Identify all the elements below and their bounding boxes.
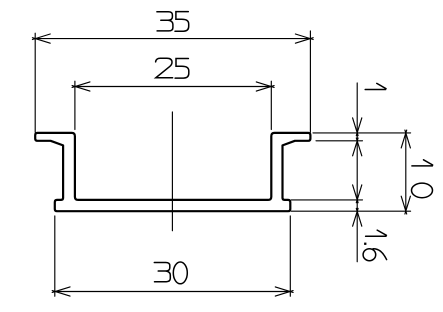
dim 30 arrow left <box>52 287 70 296</box>
extension line lip top (right) <box>313 132 411 134</box>
dim 25 arrow right <box>256 82 274 91</box>
text 30 digit 3 <box>154 263 170 282</box>
text 10 digit 0 (rotated) <box>412 183 433 198</box>
text 10 digit 1 (rotated) <box>412 160 433 166</box>
dim 35 arrow left <box>32 34 50 43</box>
dim 1 arrow up <box>353 138 362 156</box>
dim 30 extension line left <box>54 216 56 296</box>
vertical centerline <box>171 112 173 231</box>
extension line plate top (right) <box>291 199 362 201</box>
extension line lip bottom (right) <box>316 140 363 142</box>
dim 35 extension line left <box>34 33 36 132</box>
extension line plate bottom (right) <box>291 210 410 212</box>
dim 35 extension line right <box>309 31 311 132</box>
text 1.6 digit 6 (rotated) <box>373 249 387 260</box>
dim 1.6 arrow up <box>353 208 362 226</box>
text 25 digit 2 <box>156 58 173 78</box>
dim 25 extension line left <box>74 81 76 129</box>
dim 10 line <box>405 133 407 211</box>
dim 30 extension line right <box>289 216 291 296</box>
dim 30 line <box>55 291 290 293</box>
text 35 digit 5 <box>175 12 189 32</box>
channel profile cross-section outline <box>35 133 310 211</box>
dim 25 extension line right <box>270 81 272 129</box>
dim 25 arrow left <box>72 82 90 91</box>
text 1 (rotated) <box>365 83 386 89</box>
text 30 digit 0 <box>173 262 187 284</box>
dim 35 line <box>35 38 310 40</box>
dim 35 arrow right <box>295 34 313 43</box>
dim 30 arrow right <box>275 287 293 296</box>
dim 1.6 arrow down <box>353 185 362 203</box>
text 1.6 decimal point (rotated) <box>364 243 366 245</box>
dim 10 arrow down <box>401 196 410 214</box>
text 1.6 digit 1 (rotated) <box>366 230 387 236</box>
text 25 digit 5 <box>175 59 189 79</box>
text 35 digit 3 <box>157 12 173 31</box>
dim 25 line <box>75 86 271 88</box>
dim 10 arrow up <box>401 130 410 148</box>
dim 1 arrow down <box>353 118 362 136</box>
dim 1 / 1.6 vertical line <box>356 83 358 262</box>
